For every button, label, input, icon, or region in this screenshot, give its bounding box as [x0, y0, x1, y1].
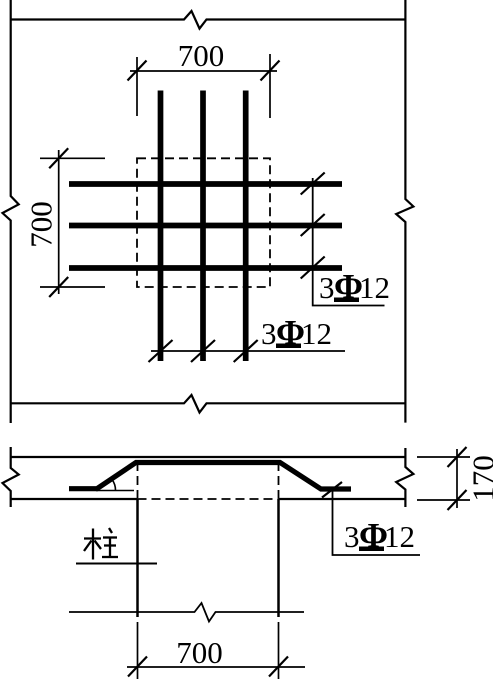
top dimension line — [130, 70, 277, 72]
svg-text:700: 700 — [176, 635, 223, 670]
plan view left border break line — [3, 0, 19, 423]
left dimension tick top — [49, 148, 68, 168]
section slab left edge break — [3, 447, 19, 507]
plan view bottom border break line — [11, 395, 406, 413]
column left face hidden dashed — [137, 462, 139, 498]
bent rebar in section — [69, 463, 351, 490]
170 dimension extension line bottom — [417, 499, 470, 501]
column left face — [136, 499, 139, 617]
left dimension line — [58, 150, 60, 294]
svg-text:700: 700 — [178, 38, 225, 73]
column outline dashed square — [137, 158, 270, 287]
top dimension extension line right — [269, 54, 271, 118]
rebar H2 horizontal bar — [69, 223, 342, 229]
bottom dimension tick left — [128, 657, 147, 677]
leader line for vertical bars label — [151, 350, 345, 352]
rebar V2 vertical bar — [200, 91, 206, 362]
leader slash on H3 — [301, 257, 325, 279]
column right face hidden dashed — [278, 462, 280, 498]
section slab top line — [11, 456, 406, 458]
section slab bottom line left — [11, 498, 138, 500]
leader slash on H1 — [301, 173, 325, 195]
leader line for horizontal bars label — [313, 178, 385, 306]
svg-text:12: 12 — [359, 270, 390, 305]
170 dimension extension line top — [417, 456, 470, 458]
rebar V3 vertical bar — [243, 91, 249, 362]
plan view top border break line — [11, 11, 406, 29]
column label zhu underline — [76, 563, 157, 565]
plan view right border break line — [396, 0, 413, 423]
leader slash on V2 — [191, 340, 215, 362]
section bar leader line — [333, 491, 421, 555]
leader slash on H2 — [301, 214, 325, 236]
bottom dimension extension line right — [278, 622, 280, 679]
rebar H1 horizontal bar — [69, 181, 342, 187]
bend angle arc — [112, 480, 116, 491]
left dimension tick bottom — [49, 277, 68, 297]
section slab bottom line right — [279, 498, 406, 500]
svg-text:3: 3 — [344, 519, 360, 554]
svg-text:12: 12 — [301, 316, 332, 351]
top dimension tick right — [261, 61, 280, 81]
svg-text:170: 170 — [466, 455, 493, 502]
svg-text:3: 3 — [261, 316, 277, 351]
left dimension extension line bottom — [40, 286, 105, 288]
leader slash on V3 — [234, 340, 258, 362]
column label zhu glyph — [84, 528, 118, 560]
section slab bottom hidden dashed — [138, 498, 279, 500]
top dimension extension line left — [136, 57, 138, 116]
bend angle baseline — [96, 490, 134, 492]
rebar H3 horizontal bar — [69, 265, 342, 271]
170 dimension tick top — [448, 447, 467, 467]
section bar leader slash — [322, 482, 342, 498]
column right face — [277, 499, 280, 617]
bottom dimension tick right — [269, 657, 288, 677]
svg-text:700: 700 — [24, 201, 59, 248]
rebar V1 vertical bar — [158, 91, 164, 362]
top dimension tick left — [128, 61, 147, 81]
left dimension extension line top — [40, 157, 105, 159]
svg-text:12: 12 — [384, 519, 415, 554]
170 dimension line — [456, 449, 458, 508]
170 dimension tick bottom — [448, 490, 467, 510]
bottom dimension extension line left — [137, 622, 139, 679]
section slab right edge break — [396, 448, 413, 507]
bottom dimension line — [127, 666, 305, 668]
leader slash on V1 — [149, 340, 173, 362]
svg-text:3: 3 — [319, 270, 335, 305]
column break line — [69, 603, 304, 622]
